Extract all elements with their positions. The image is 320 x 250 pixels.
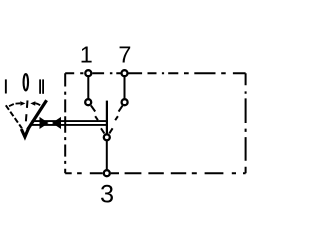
svg-text:1: 1 [80, 42, 93, 68]
svg-text:3: 3 [100, 181, 114, 209]
svg-text:7: 7 [118, 42, 131, 68]
